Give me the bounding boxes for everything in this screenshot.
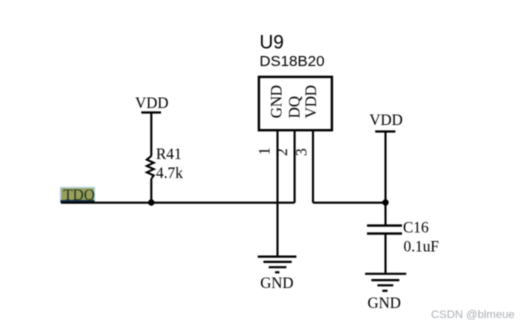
svg-text:CSDN @blmeue: CSDN @blmeue: [431, 309, 515, 321]
svg-text:GND: GND: [269, 85, 286, 118]
svg-text:VDD: VDD: [135, 95, 168, 112]
resistor R41: [147, 156, 154, 179]
pin 2 wire: [294, 130, 296, 203]
svg-text:DQ: DQ: [286, 96, 303, 118]
svg-text:DS18B20: DS18B20: [260, 53, 325, 70]
component U9 body box: [259, 77, 332, 130]
svg-text:3: 3: [293, 148, 310, 156]
wire resistor to node: [150, 178, 152, 202]
ground symbol middle: [258, 257, 297, 273]
wire TDQ to pin 2: [61, 202, 295, 204]
svg-text:1: 1: [257, 147, 274, 155]
node junction dot R41: [148, 199, 154, 205]
svg-text:GND: GND: [368, 295, 401, 312]
svg-text:VDD: VDD: [369, 112, 402, 129]
svg-text:VDD: VDD: [303, 85, 320, 118]
wire VDD to resistor: [150, 113, 152, 156]
net label TDQ: [61, 187, 95, 204]
svg-text:U9: U9: [260, 33, 284, 54]
svg-text:2: 2: [274, 148, 291, 156]
svg-text:C16: C16: [403, 220, 429, 237]
pin 3 wire: [312, 130, 314, 203]
node junction dot VDD/C16: [382, 199, 388, 205]
svg-text:0.1uF: 0.1uF: [404, 239, 440, 256]
power symbol VDD left bar: [141, 111, 161, 113]
pin 1 wire: [276, 130, 278, 256]
svg-text:R41: R41: [156, 146, 182, 163]
svg-text:TDQ: TDQ: [63, 187, 95, 204]
wire pin 3 to VDD node: [313, 202, 386, 204]
svg-text:GND: GND: [260, 275, 293, 292]
ground symbol right: [365, 274, 406, 291]
svg-text:4.7k: 4.7k: [156, 165, 183, 182]
wire VDD right down: [384, 132, 386, 203]
capacitor C16: [367, 226, 402, 234]
wire capacitor to ground: [384, 234, 386, 274]
wire node to capacitor: [384, 203, 386, 226]
power symbol VDD right bar: [375, 130, 395, 132]
